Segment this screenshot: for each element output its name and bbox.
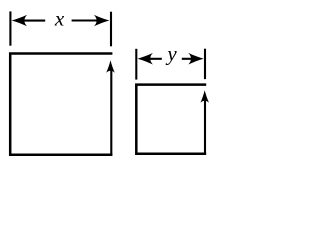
dimension x: left extension tick xyxy=(9,11,11,45)
square 2: right edge arrow shaft xyxy=(204,100,206,154)
square 1: right edge arrow shaft xyxy=(110,70,112,155)
svg-text:x: x xyxy=(54,7,65,31)
dimension y: right extension tick xyxy=(204,49,206,79)
dimension y: right arrowhead xyxy=(188,53,203,65)
dimension x: left arrow shaft xyxy=(20,20,45,22)
dimension x: left arrowhead xyxy=(12,15,28,27)
svg-text:y: y xyxy=(165,42,177,66)
dimension y: right arrow shaft xyxy=(182,58,194,60)
square 2: up arrowhead xyxy=(200,90,209,103)
square 1 (side x): top, left, bottom edges xyxy=(10,54,112,155)
square 2 (side y): top, left, bottom edges xyxy=(136,85,206,154)
dimension x: right arrowhead xyxy=(94,15,110,27)
dimension y: left arrowhead xyxy=(138,53,153,65)
dimension x: right extension tick xyxy=(110,12,112,47)
dimension y: left extension tick xyxy=(135,49,137,80)
dimension x: right arrow shaft xyxy=(72,19,100,21)
square 1: up arrowhead xyxy=(106,60,115,73)
dimension y: left arrow shaft xyxy=(146,58,162,60)
